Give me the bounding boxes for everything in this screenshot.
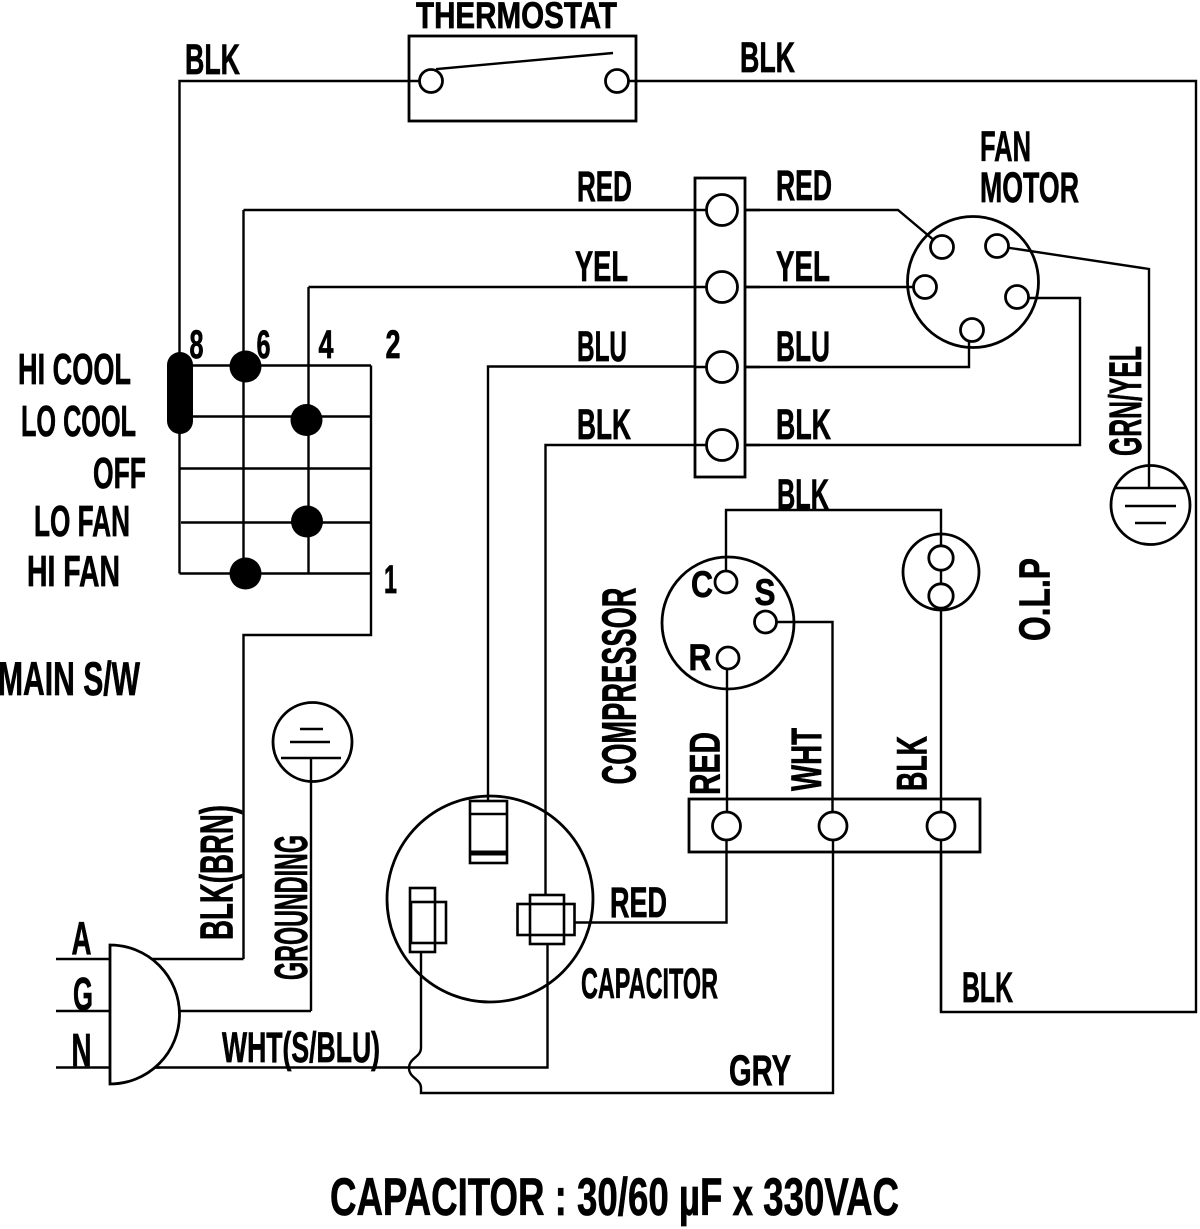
ground symbol right (GRN/YEL) circle [1111,466,1190,545]
wire YEL right: strip to fan motor mid-left pin [722,286,925,288]
svg-text:WHT(S/BLU): WHT(S/BLU) [222,1024,380,1072]
ground symbol left (grounding) circle [273,703,352,782]
terminal strip (4 position) [695,178,745,477]
wire from O.L.P bottom to bottom strip BLK [940,596,942,826]
svg-text:CAPACITOR: CAPACITOR [581,960,718,1008]
ground left line short [300,728,323,730]
svg-text:CAPACITOR : 30/60 µF x 330VAC: CAPACITOR : 30/60 µF x 330VAC [330,1168,899,1227]
switch contact pill col8 [167,352,193,434]
svg-text:LO COOL: LO COOL [21,397,136,446]
svg-text:8: 8 [190,323,204,367]
svg-text:G: G [73,968,93,1020]
svg-text:N: N [72,1024,92,1076]
plug line A [56,958,244,960]
strip terminal BLU [707,352,738,383]
wire RED right: strip to fan motor top-left pin [722,210,942,247]
ground right line short [1135,522,1166,524]
plug line G [56,1010,311,1012]
strip terminal YEL [707,272,738,303]
wire GROUNDING: ground circle to plug G [310,758,312,1011]
svg-text:1: 1 [384,558,397,602]
compressor pin R [717,647,739,669]
svg-text:LO FAN: LO FAN [34,497,130,546]
capacitor circle [387,796,593,1002]
svg-text:A: A [72,912,92,964]
bottom terminal strip (3 position) [689,799,980,852]
O.L.P circle [903,534,979,610]
svg-text:THERMOSTAT: THERMOSTAT [416,0,617,36]
main switch row HI COOL [180,364,372,366]
ground left line mid [290,741,330,743]
compressor pin S [755,611,777,633]
wire GRN/YEL: fan top-right pin diagonal to right edge, down to ground [997,246,1149,488]
svg-text:BLK: BLK [776,401,831,449]
wire BLK: compressor C up, right, down to O.L.P [726,510,941,582]
bottom strip terminal BLK [927,812,955,840]
wire from compressor R down to bottom strip RED [726,658,728,826]
plug body (power cord) [110,945,180,1084]
fan motor pin mid-left [914,276,937,299]
main switch row HI FAN [180,572,372,574]
wire BLK top-left: thermostat left pin to switch pill col 8 [180,81,432,352]
wire from compressor S right, down to bottom strip WHT [766,622,833,826]
plug line N [56,1066,160,1068]
wire from switch pin 1 down-left, BLK(BRN) down to plug A [244,574,372,960]
ground right line long [1114,487,1187,489]
svg-text:4: 4 [319,323,335,367]
svg-text:RED: RED [577,163,632,211]
redraw wires across strip border [695,210,760,445]
ground left line long [281,757,341,759]
main switch row LO COOL [180,415,372,417]
svg-text:RED: RED [776,162,832,210]
svg-text:BLK: BLK [889,736,937,791]
fan motor pin mid-right [1006,286,1029,309]
svg-text:RED: RED [682,732,730,795]
wire YEL: switch col4 corner right to terminal strip [309,286,723,288]
svg-text:S: S [755,572,776,613]
wire BLK right: strip to fan motor mid-right pin [722,298,1080,445]
capacitor top terminal [470,801,507,863]
main switch grid vertical col 6 [242,210,244,574]
fan motor pin bottom [961,319,984,342]
switch contact dot col6 HI COOL [230,351,262,383]
main switch row LO FAN [181,521,371,523]
svg-text:2: 2 [386,323,401,367]
redraw wires across bottom strip [727,799,942,852]
strip terminal RED [707,195,738,226]
svg-text:OFF: OFF [93,449,146,498]
compressor pin C [715,571,737,593]
wire BLK top-right: thermostat right pin right, down right edge, to bottom strip BLK [617,81,1196,1012]
svg-text:RED: RED [610,879,667,927]
svg-text:GRN/YEL: GRN/YEL [1100,346,1151,456]
wire BLK: capacitor right terminal up, right to terminal strip [546,445,723,895]
wire GRY: capacitor left terminal, hop over WHT, to bottom strip WHT [409,852,833,1093]
svg-text:BLK: BLK [185,36,240,84]
capacitor left terminal [410,888,435,952]
O.L.P pin bottom [929,584,953,608]
main switch grid vertical col 8 [178,352,180,574]
svg-text:HI FAN: HI FAN [27,547,120,596]
svg-text:R: R [689,637,712,678]
wire BLU right: strip to fan motor bottom pin [722,330,969,367]
capacitor right terminal [530,895,564,944]
O.L.P pin top [929,546,953,570]
bottom strip terminal RED [713,812,741,840]
svg-text:BLK: BLK [740,34,795,82]
bottom strip terminal WHT [819,812,847,840]
switch contact dot col4 LO COOL [291,404,323,436]
wire RED: switch col6 up and right to terminal strip [244,209,723,211]
svg-text:GRY: GRY [729,1047,791,1095]
strip terminal BLK [707,430,738,461]
svg-text:COMPRESSOR: COMPRESSOR [594,588,647,785]
svg-text:MOTOR: MOTOR [980,164,1079,212]
svg-text:6: 6 [257,323,271,367]
wire RED: capacitor right terminal to bottom strip RED [575,852,727,923]
O.L.P inner link [940,557,942,596]
svg-text:MAIN S/W: MAIN S/W [0,652,140,705]
svg-text:BLK: BLK [962,964,1013,1012]
fan motor pin top-right [986,235,1009,258]
fan motor pin top-left [931,236,954,259]
thermostat switch blade [431,53,613,81]
svg-text:HI COOL: HI COOL [18,345,131,394]
svg-text:BLK: BLK [577,401,631,449]
wire BLK: bottom strip BLK down and right [940,852,942,1012]
main switch grid vertical col 4 [307,287,309,574]
main switch grid vertical col 2 right edge [370,366,372,574]
svg-text:YEL: YEL [776,243,830,291]
wire BLU: corner to terminal strip and down to capacitor top terminal [488,367,722,802]
thermostat box [409,36,636,121]
ground right line mid [1125,505,1176,507]
switch contact dot col6 HI FAN [230,558,262,590]
svg-text:O.L.P: O.L.P [1011,558,1060,641]
thermostat pin right [606,70,629,93]
thermostat pin left [420,70,443,93]
svg-text:BLU: BLU [577,323,627,371]
svg-text:YEL: YEL [575,243,628,291]
svg-text:GROUNDING: GROUNDING [265,835,317,980]
svg-text:BLK(BRN): BLK(BRN) [191,805,243,940]
main switch row OFF [180,467,372,469]
svg-text:BLK: BLK [777,471,829,519]
switch contact dot col4 LO FAN [291,506,323,538]
fan motor circle [908,217,1039,348]
svg-text:WHT: WHT [783,728,831,791]
compressor circle [662,557,794,689]
svg-text:C: C [691,564,713,605]
wire WHT(S/BLU): plug N right, under capacitor, up to capacitor right terminal [155,944,548,1068]
svg-text:BLU: BLU [776,323,830,371]
